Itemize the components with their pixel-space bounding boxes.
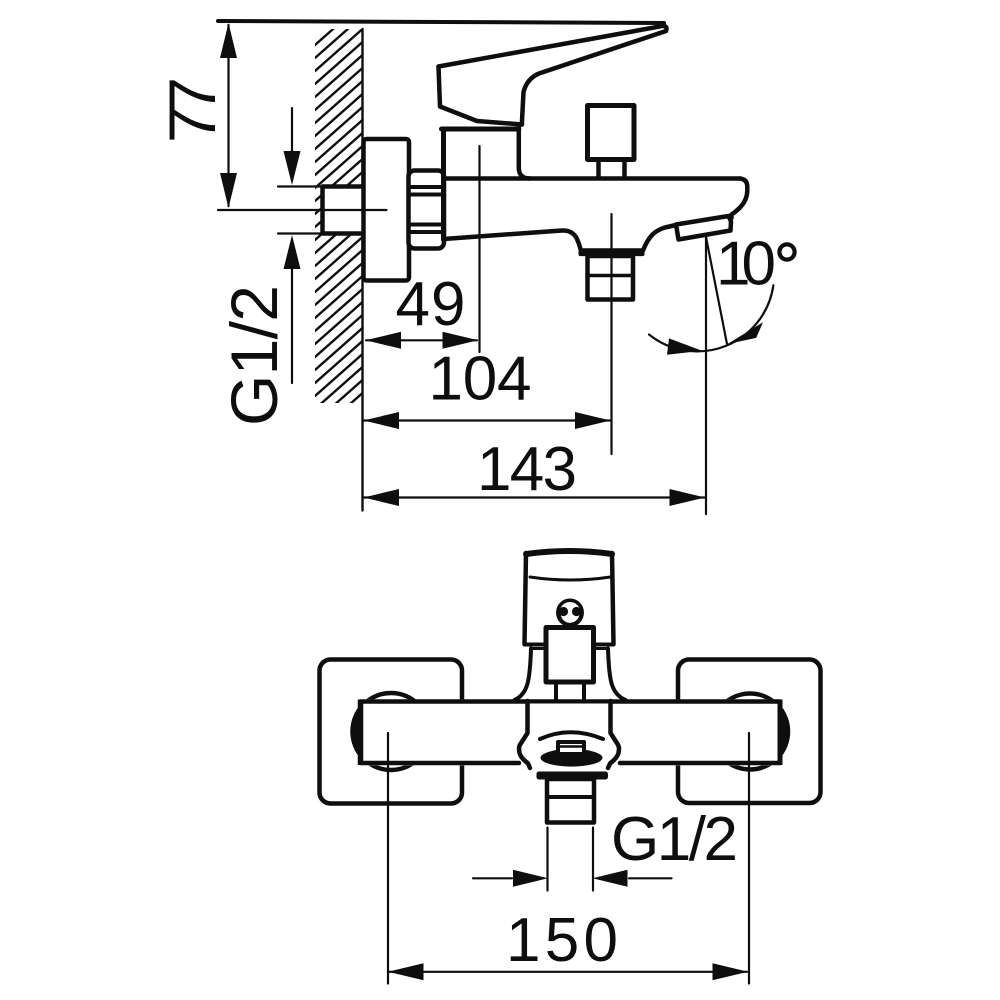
right wall plate [678,660,821,804]
10 deg slant line [706,237,727,344]
right nut sliver [780,708,788,755]
escutcheon (side view) [364,139,410,281]
dim 77 [220,23,237,208]
label 10 deg [779,244,794,259]
dim 143 [364,489,706,506]
gasket [541,749,603,767]
body bar [361,699,781,765]
wall surface line [361,29,363,511]
body underside [444,230,581,249]
left wall plate [320,660,463,804]
body top edge [444,176,740,181]
10 deg arc [649,285,773,351]
diverter knob [588,106,635,160]
shower outlet thread (side view) [588,256,634,300]
dim G1/2 bottom [473,828,672,891]
inlet pipe G1/2 [323,187,367,234]
svg-text:77: 77 [155,77,229,143]
diverter knob stem [596,160,601,178]
left nut sliver [352,708,360,755]
extension line: handle top [218,21,664,23]
handle cap [439,67,523,125]
centerline cartridge [478,146,480,352]
right connection circle [712,694,788,770]
temperature indicator dot [558,600,582,625]
shower outlet seal bar [579,248,645,256]
centerline spout tip / 143 extension [705,237,707,514]
lever head (front) [525,551,614,649]
diverter pull knob (front) [558,742,584,754]
svg-text:143: 143 [477,435,577,504]
wall hatching [315,3,363,448]
cartridge square plate [546,628,594,683]
svg-text:150: 150 [506,906,618,975]
neck flare [515,649,532,701]
lever handle [439,26,667,125]
body left face [441,129,446,240]
dim 49 [366,332,479,349]
svg-text:104: 104 [429,345,532,414]
dim pipe G1/2 ticks and leader [278,108,324,383]
dim 150 [388,733,749,984]
svg-text:49: 49 [396,270,466,339]
spout bell [519,701,619,772]
svg-text:10: 10 [716,230,776,299]
body right profile [732,179,748,219]
connection nut (side view) [409,171,445,249]
bell rim [537,772,609,780]
left connection circle [353,693,430,770]
inner neck [554,682,558,700]
spout aerator band [676,216,731,240]
svg-text:G1/2: G1/2 [611,805,738,874]
10 deg arrowheads [667,338,702,354]
centerline shower outlet [610,214,612,454]
svg-text:G1/2: G1/2 [217,285,291,426]
outlet pipe (front) [547,779,594,823]
cartridge housing [442,125,531,179]
centerline inlet [218,209,387,211]
dim 104 [364,412,611,429]
